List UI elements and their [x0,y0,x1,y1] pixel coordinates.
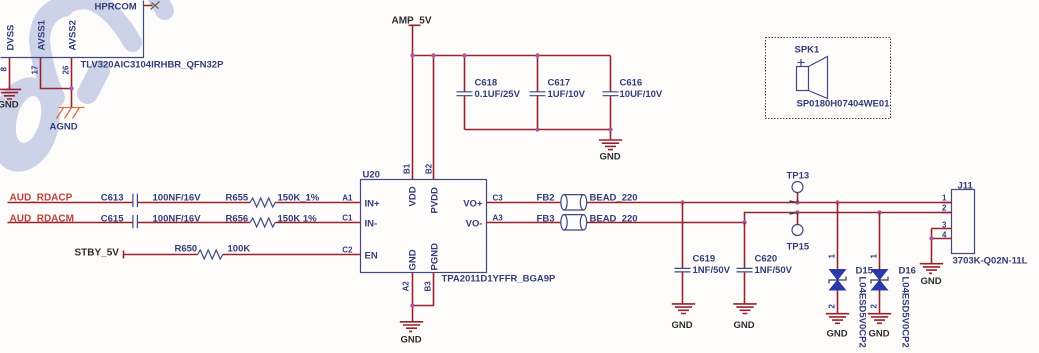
svg-text:R655: R655 [226,193,249,204]
svg-text:1NF/50V: 1NF/50V [755,265,793,276]
svg-text:R656: R656 [226,214,249,225]
svg-text:U20: U20 [363,170,380,181]
svg-text:4: 4 [942,231,947,240]
svg-text:GND: GND [401,335,422,346]
svg-text:AVSS1: AVSS1 [37,19,48,50]
svg-text:C613: C613 [101,193,124,204]
svg-text:1NF/50V: 1NF/50V [693,265,731,276]
svg-text:VO-: VO- [466,219,483,230]
svg-text:100NF/16V: 100NF/16V [153,193,202,204]
svg-text:1: 1 [942,194,947,203]
svg-text:HPRCOM: HPRCOM [95,2,137,13]
svg-text:3703K-Q02N-11L: 3703K-Q02N-11L [953,256,1028,267]
svg-text:150K_1%: 150K_1% [278,193,320,204]
svg-text:150K 1%: 150K 1% [278,214,318,225]
svg-text:GND: GND [672,320,693,331]
svg-text:C619: C619 [693,254,716,265]
svg-text:D16: D16 [899,266,916,277]
svg-text:B1: B1 [403,163,412,174]
svg-text:SPK1: SPK1 [795,45,821,56]
svg-text:VO+: VO+ [463,199,483,210]
svg-text:GND: GND [408,249,419,270]
svg-text:A: A [50,122,57,133]
svg-text:C2: C2 [342,246,353,255]
svg-text:TP15: TP15 [787,242,810,253]
svg-text:A1: A1 [342,194,353,203]
svg-text:3: 3 [942,221,947,230]
svg-text:GND: GND [869,329,890,340]
svg-text:B2: B2 [425,163,434,174]
svg-text:1UF/10V: 1UF/10V [548,89,586,100]
svg-text:GND: GND [827,329,848,340]
svg-text:BEAD_220: BEAD_220 [590,214,638,225]
svg-text:STBY_5V: STBY_5V [75,248,120,259]
svg-text:L04ESD5V0CP2: L04ESD5V0CP2 [900,277,911,348]
svg-text:R650: R650 [175,244,198,255]
svg-text:100NF/16V: 100NF/16V [153,214,202,225]
svg-text:GND: GND [0,100,19,111]
svg-text:PVDD: PVDD [430,187,441,214]
svg-text:FB2: FB2 [537,193,555,204]
svg-text:2: 2 [942,204,947,213]
svg-text:B3: B3 [424,281,433,292]
svg-text:IN-: IN- [365,219,378,230]
svg-text:C615: C615 [101,214,124,225]
svg-text:2: 2 [828,304,837,309]
svg-text:0.1UF/25V: 0.1UF/25V [475,89,521,100]
svg-text:GND: GND [921,276,942,287]
svg-text:C616: C616 [620,78,643,89]
svg-text:10UF/10V: 10UF/10V [620,89,663,100]
svg-text:A2: A2 [402,281,411,292]
svg-text:BEAD_220: BEAD_220 [590,193,638,204]
svg-text:C617: C617 [548,78,571,89]
svg-text:D15: D15 [856,266,874,277]
svg-text:TLV320AIC3104IRHBR_QFN32P: TLV320AIC3104IRHBR_QFN32P [81,60,225,71]
svg-text:C3: C3 [493,194,504,203]
svg-text:VDD: VDD [408,186,419,206]
svg-text:GND: GND [600,152,621,163]
svg-text:1: 1 [870,254,879,259]
svg-text:TPA2011D1YFFR_BGA9P: TPA2011D1YFFR_BGA9P [442,274,557,285]
svg-text:A3: A3 [493,214,504,223]
svg-text:C1: C1 [342,214,353,223]
svg-text:1: 1 [828,254,837,259]
svg-text:DVSS: DVSS [6,25,17,51]
svg-text:J11: J11 [958,181,974,192]
svg-text:17: 17 [31,65,40,74]
svg-text:TP13: TP13 [787,171,810,182]
svg-text:FB3: FB3 [537,214,555,225]
svg-text:C620: C620 [755,254,778,265]
svg-text:2: 2 [870,304,879,309]
svg-text:C618: C618 [475,78,498,89]
svg-text:100K: 100K [228,244,251,255]
svg-text:L04ESD5V0CP2: L04ESD5V0CP2 [857,277,868,348]
svg-text:SP0180H07404WE01: SP0180H07404WE01 [797,99,891,110]
svg-text:GND: GND [734,320,755,331]
svg-text:PGND: PGND [430,243,441,271]
svg-text:AVSS2: AVSS2 [68,20,79,50]
svg-text:IN+: IN+ [365,199,381,210]
svg-text:GND: GND [57,122,78,133]
svg-text:8: 8 [0,67,9,72]
svg-text:26: 26 [62,65,71,74]
svg-text:EN: EN [365,251,378,262]
